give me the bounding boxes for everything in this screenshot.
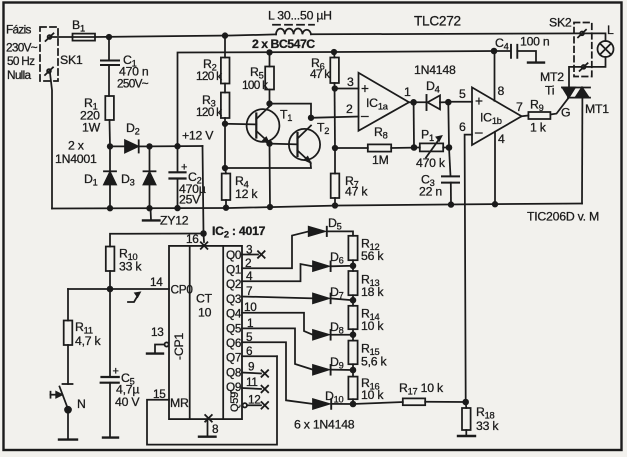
svg-text:33 k: 33 k <box>119 260 142 274</box>
wire: +12V drop to IC2 pin16 <box>203 146 205 242</box>
svg-text:1 k: 1 k <box>530 121 547 135</box>
svg-text:230V~: 230V~ <box>6 41 38 55</box>
wire: +12V node horizontal <box>150 145 203 147</box>
wire: Q4 pin10 to D8 <box>242 313 313 335</box>
svg-text:47 k: 47 k <box>310 67 330 81</box>
svg-text:IC2 : 4017: IC2 : 4017 <box>212 224 266 240</box>
svg-text:–: – <box>361 108 369 123</box>
svg-text:9: 9 <box>248 360 254 374</box>
wire: pin16 branch to R10 <box>110 234 204 247</box>
wire: IC1b pin8 riser <box>494 51 496 101</box>
svg-text:Nulla: Nulla <box>7 68 32 82</box>
diode D2 <box>110 140 150 152</box>
wire: MR pin15 and reset loop from Q7 pin6 <box>147 356 277 444</box>
wire: T1 emitter node down to rail <box>269 144 272 207</box>
svg-text:10 k: 10 k <box>361 388 384 402</box>
capacitor C2 (electrolytic) <box>170 146 186 208</box>
node: R3/R4/T2-emitter junction <box>223 166 228 171</box>
wire: +12V rail riser and top run <box>178 51 495 146</box>
svg-text:120 k: 120 k <box>196 105 222 119</box>
svg-text:22 n: 22 n <box>419 185 442 199</box>
ground (C4) <box>528 61 544 63</box>
node: C2 on rail <box>175 206 180 211</box>
svg-text:4: 4 <box>498 132 505 146</box>
node: D2/D3 junction <box>147 144 152 149</box>
svg-text:1: 1 <box>247 316 253 330</box>
resistor R16 <box>348 377 357 400</box>
svg-text:+: + <box>475 94 483 109</box>
svg-text:Q4: Q4 <box>226 307 242 321</box>
svg-text:Q8: Q8 <box>226 365 242 379</box>
diode D5 <box>309 227 353 236</box>
node: T1 collector / R5 <box>267 101 272 106</box>
node: R2 top on mains rail <box>223 33 228 38</box>
svg-text:1N4001: 1N4001 <box>55 152 97 166</box>
svg-text:25V: 25V <box>179 193 201 207</box>
op-amp IC1b <box>472 87 522 145</box>
edge-trigger symbol at pin14 <box>128 293 140 303</box>
node: +12V / C2 top <box>175 144 180 149</box>
zener ZY12 (ground-bar symbol) <box>143 208 160 220</box>
svg-text:+: + <box>361 81 369 96</box>
ground (R18) <box>458 435 475 437</box>
svg-text:Q2: Q2 <box>226 277 241 291</box>
pin 12 carry stub with circle and X <box>243 402 269 409</box>
wire: IC1b pin4 drop <box>494 132 496 204</box>
wire: mains top rail from SK1 to SK2 <box>52 33 580 37</box>
resistor R4 <box>222 168 231 208</box>
resistor R14 <box>348 306 357 329</box>
node: pin3 tap on R6 line <box>333 86 338 91</box>
svg-text:47 k: 47 k <box>345 185 368 199</box>
svg-text:40 V: 40 V <box>115 395 140 409</box>
capacitor C4 <box>494 45 536 62</box>
svg-text:Q0: Q0 <box>226 248 242 262</box>
capacitor C5 (electrolytic) <box>101 289 119 437</box>
resistor R5 <box>265 52 274 103</box>
node: R6 top on +12V rail <box>332 50 337 55</box>
resistor R10 <box>106 247 115 290</box>
svg-text:2: 2 <box>245 256 251 270</box>
svg-text:MT1: MT1 <box>585 102 609 116</box>
transistor T1 <box>225 106 279 143</box>
wire: Q6 pin5 to D10 <box>242 342 313 404</box>
svg-text:10 k: 10 k <box>361 319 384 333</box>
potentiometer P1 <box>414 136 449 157</box>
wire: pin5 node down to P1 right <box>447 102 450 147</box>
node: D6/R12/R13 junction <box>351 263 356 268</box>
node: P1 left junction <box>412 145 417 150</box>
svg-text:8: 8 <box>212 422 219 436</box>
svg-text:33 k: 33 k <box>476 419 499 433</box>
node: D8/R14/R15 junction <box>351 332 356 337</box>
wire: Q5 pin1 to D9 <box>242 328 313 369</box>
svg-text:4: 4 <box>246 269 253 283</box>
resistor R3 <box>221 84 230 169</box>
wire: pin5 node to IC1b <box>448 101 472 103</box>
svg-text:6: 6 <box>459 120 466 134</box>
pin 8 X mark on box bottom <box>205 415 212 422</box>
pin 16 no-connect X on box top <box>201 242 208 249</box>
svg-text:100 k: 100 k <box>242 78 268 92</box>
ground (IC2 pin8) <box>199 436 216 438</box>
svg-text:6 x 1N4148: 6 x 1N4148 <box>294 418 355 432</box>
svg-text:Fázis: Fázis <box>6 23 31 37</box>
svg-text:5: 5 <box>246 330 253 344</box>
svg-text:Q7: Q7 <box>226 351 241 365</box>
svg-text:56 k: 56 k <box>361 249 384 263</box>
wire: T2 emitter to R3/R4 junction <box>225 163 311 169</box>
wire: MT2 lead <box>569 67 582 88</box>
svg-text:250V~: 250V~ <box>117 77 149 91</box>
wire: MT1 lead down to rail <box>581 98 583 204</box>
ground (N switch) <box>59 438 77 440</box>
svg-text:+12 V: +12 V <box>182 129 214 143</box>
svg-text:120 k: 120 k <box>196 69 222 83</box>
node: R5 top on +12V rail <box>267 50 272 55</box>
switch SK1 (dashed box with contacts) <box>40 27 58 81</box>
svg-text:1W: 1W <box>82 121 101 135</box>
svg-text:ZY12: ZY12 <box>160 214 189 228</box>
wire: node1 down to P1 left <box>413 102 415 147</box>
node: R1/D2/D1 junction <box>108 144 113 149</box>
wire: pin3 to IC1a <box>335 88 359 90</box>
svg-text:Q6: Q6 <box>226 336 242 350</box>
svg-text:CP0: CP0 <box>171 283 194 297</box>
node: pin16 branch junction <box>201 231 206 236</box>
svg-text:MR: MR <box>170 396 189 410</box>
node: IC1a output node 1 <box>411 100 416 105</box>
svg-text:SK1: SK1 <box>60 53 83 67</box>
svg-text:7: 7 <box>246 284 252 298</box>
svg-text:Q9: Q9 <box>226 380 241 394</box>
svg-text:2 x BC547C: 2 x BC547C <box>252 37 315 51</box>
wire: Q8 pin9 stub with X <box>242 370 268 377</box>
node: R4 on rail <box>224 205 229 210</box>
switch N (push contact) <box>51 384 73 439</box>
wire: Q3 pin7 to D7 <box>242 297 313 299</box>
resistor R12 <box>348 236 357 260</box>
wire: Q7 pin6 stub <box>242 355 277 357</box>
svg-text:G: G <box>561 106 570 120</box>
lamp L <box>584 33 614 67</box>
svg-text:L 30...50 µH: L 30...50 µH <box>268 9 332 23</box>
resistor R18 <box>462 402 471 436</box>
node: D10/R16/R17 junction <box>351 402 356 407</box>
IC2 4017 box <box>169 246 242 419</box>
svg-text:SK2: SK2 <box>549 16 572 30</box>
diode D7 <box>313 294 353 306</box>
svg-text:Q3: Q3 <box>226 292 242 306</box>
svg-text:12 k: 12 k <box>235 187 258 201</box>
transistor T2 <box>270 126 321 163</box>
svg-text:6: 6 <box>246 344 253 358</box>
node: D9/R15/R16 junction <box>351 368 356 373</box>
diode D3 <box>144 146 156 208</box>
svg-text:50 Hz: 50 Hz <box>7 54 35 68</box>
node: C3 on rail <box>449 202 454 207</box>
svg-text:10: 10 <box>244 300 257 314</box>
svg-text:Q5: Q5 <box>226 321 242 335</box>
diode D4 <box>427 95 449 110</box>
triac Ti <box>562 88 590 98</box>
resistor R13 <box>348 271 357 295</box>
diode D9 <box>313 364 353 376</box>
resistor R7 <box>331 148 340 206</box>
svg-text:N: N <box>77 397 86 411</box>
svg-text:7: 7 <box>516 100 523 114</box>
svg-text:1N4148: 1N4148 <box>414 63 456 77</box>
diode D1 <box>104 146 116 208</box>
svg-text:470 k: 470 k <box>416 156 446 170</box>
svg-text:+: + <box>181 162 187 174</box>
svg-text:1: 1 <box>404 85 411 99</box>
svg-text:11: 11 <box>246 375 258 389</box>
resistor R1 <box>105 96 114 146</box>
svg-text:3: 3 <box>347 75 354 89</box>
pin 13 input circle and ground <box>147 342 169 353</box>
svg-text:MT2: MT2 <box>540 70 564 84</box>
wire: Q0 pin3 stub with X <box>242 251 265 258</box>
svg-text:–: – <box>475 125 483 140</box>
svg-text:L: L <box>607 23 614 37</box>
capacitor C1 <box>101 37 119 96</box>
node: T1 emitter line on rail <box>268 205 273 210</box>
svg-text:CT: CT <box>196 292 213 306</box>
resistor R6 <box>330 52 339 148</box>
svg-text:2 x: 2 x <box>68 139 85 153</box>
node: R6/R7/R8 junction <box>333 146 338 151</box>
svg-text:18 k: 18 k <box>361 285 384 299</box>
svg-text:14: 14 <box>150 275 163 289</box>
fuse B1 <box>73 34 96 41</box>
svg-text:1M: 1M <box>372 153 389 167</box>
resistor R9 <box>522 98 569 119</box>
resistor R8 <box>335 144 414 151</box>
node: D3 on rail <box>147 206 152 211</box>
resistor R11 <box>64 289 73 384</box>
node: D1 on rail <box>108 206 113 211</box>
node: R10/C5/pin14 junction <box>108 287 113 292</box>
node: T1 base tap <box>223 122 228 127</box>
inductor L coil <box>273 25 314 35</box>
capacitor C3 <box>442 148 459 205</box>
ground (C5) <box>103 436 118 438</box>
svg-text:R17 10 k: R17 10 k <box>399 381 444 397</box>
svg-text:TLC272: TLC272 <box>414 14 461 29</box>
svg-text:12: 12 <box>248 393 261 407</box>
op-amp IC1a <box>359 73 410 131</box>
svg-text:5,6 k: 5,6 k <box>361 355 388 369</box>
switch SK2 (dashed box with contacts) <box>574 23 592 77</box>
node: pin5 node <box>446 100 451 105</box>
diode D6 <box>313 260 353 271</box>
wire: T1 collector to T2 collector riser <box>270 104 312 118</box>
svg-text:100 n: 100 n <box>520 35 550 49</box>
node: T1 emitter / T2 base <box>267 141 272 146</box>
node: B1/C1 junction <box>107 35 112 40</box>
svg-text:15: 15 <box>153 387 166 401</box>
wire: IC1b pin6 left and long drop <box>465 135 472 402</box>
svg-text:Ti: Ti <box>545 84 554 98</box>
svg-text:-CP1: -CP1 <box>172 333 186 360</box>
node: P1 right junction <box>447 145 452 150</box>
node: R17/R18/pin6 junction <box>463 400 468 405</box>
svg-text:+: + <box>113 366 119 378</box>
node: C4 junction on +12V rail <box>492 49 497 54</box>
wire: output 1 to D4 <box>409 101 426 103</box>
wire: pin2 to IC1a <box>311 117 359 118</box>
svg-text:4,7 k: 4,7 k <box>75 334 102 348</box>
node: IC1b pin4 on rail <box>493 202 498 207</box>
wire: Nulla down to ground rail <box>50 73 52 209</box>
wire: Q9 pin11 stub with X <box>242 386 268 393</box>
wire: Q1 pin2 to D5 <box>242 231 309 268</box>
svg-text:16: 16 <box>186 232 199 246</box>
svg-text:5: 5 <box>459 87 466 101</box>
resistor R2 <box>221 36 230 84</box>
svg-text:8: 8 <box>498 84 505 98</box>
diode D8 <box>313 329 353 340</box>
svg-text:3: 3 <box>246 243 253 257</box>
wire: pin 8 ground lead <box>207 419 209 436</box>
svg-text:Q1: Q1 <box>226 263 241 277</box>
resistor R15 <box>348 341 357 365</box>
wire: pin14 line <box>68 288 169 290</box>
node: D7/R13/R14 junction <box>351 298 356 303</box>
diode D10 <box>313 399 353 409</box>
svg-text:TIC206D v. M: TIC206D v. M <box>527 210 599 224</box>
node: T2 collector / pin2 <box>309 116 314 121</box>
wire: Q2 pin4 to D6 <box>242 264 313 281</box>
resistor R17 <box>353 398 466 405</box>
node: R7 on rail <box>333 203 338 208</box>
ground rail (common bottom rail of upper section) <box>52 204 582 209</box>
svg-text:13: 13 <box>151 325 164 339</box>
svg-text:10: 10 <box>198 306 212 320</box>
svg-text:2: 2 <box>346 102 353 116</box>
